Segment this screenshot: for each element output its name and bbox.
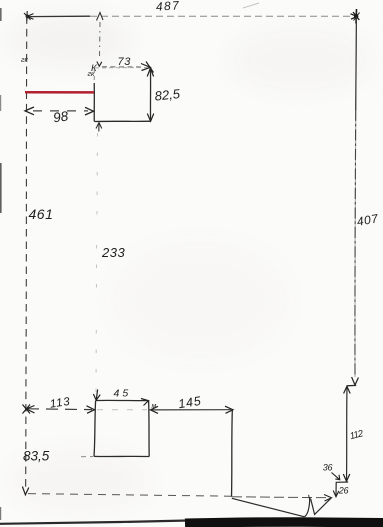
arrowhead up at x=100 on top line — [97, 13, 104, 21]
svg-text:36: 36 — [323, 463, 333, 473]
svg-text:82,5: 82,5 — [154, 86, 181, 104]
dimension line 112 (vertical) — [346, 387, 349, 481]
svg-text:98: 98 — [52, 108, 69, 125]
arrowhead left of 98 — [25, 107, 34, 115]
arrowhead right of 113 at square2 left edge — [87, 406, 95, 414]
arrowhead up-right into square2 top-right corner — [141, 399, 149, 406]
arrowhead up below square1 bottom-left — [96, 123, 102, 132]
red marker line — [25, 91, 94, 94]
bottom dashed line left section — [28, 494, 231, 497]
dimension line 487 (top, dashed) — [27, 15, 356, 17]
arrowhead down bottom of 26 segment — [333, 491, 339, 497]
dimension line 73 (dashed, square 1 top) — [102, 66, 143, 68]
square2 bottom edge dashes extending left — [81, 456, 93, 458]
square1 top edge (light dashed) — [95, 67, 150, 69]
arrowhead down at bottom of 407 line — [352, 377, 359, 385]
arrowhead down bottom of 112 — [343, 474, 350, 481]
dimension line 113 — [27, 408, 92, 411]
arrowhead bottom of left vertical line — [22, 487, 28, 495]
square1 right edge / dimension 82,5 — [149, 68, 151, 121]
scan artifact: thin bottom line left — [0, 521, 188, 524]
square2 right edge — [148, 401, 151, 457]
square 1 (top box) — [94, 68, 151, 122]
svg-text:487: 487 — [155, 0, 180, 14]
scan artifact: left edge mark top — [0, 8, 2, 21]
arrowhead down into square2 top-left corner — [93, 390, 100, 401]
arrowhead right of 98 — [85, 107, 94, 115]
scan artifact: thick black bottom strip — [185, 522, 383, 523]
square 2 (bottom box) — [94, 400, 149, 456]
tick at arc top — [309, 495, 310, 501]
wire: faint middle vertical dashed line (233 reference) — [96, 133, 98, 396]
arrowhead down (82,5 bottom) — [147, 114, 154, 122]
arrowhead right at square1 top-right corner — [141, 62, 154, 73]
wire: faint dim line through square2 — [97, 409, 147, 411]
square1 bottom edge — [94, 120, 151, 122]
scan artifact: left edge line middle — [0, 163, 2, 213]
arrowhead left of 145 — [150, 406, 158, 413]
svg-text:гк: гк — [21, 55, 29, 64]
arrowhead right end of bottom line — [324, 495, 332, 502]
svg-text:83,5: 83,5 — [23, 449, 50, 464]
dimension line 98 (dashed with arrows both ends) — [33, 110, 88, 112]
arrowhead up top of 112 — [344, 386, 351, 393]
svg-text:73: 73 — [118, 56, 132, 68]
square2 bottom edge — [94, 455, 149, 457]
square2 top edge — [96, 399, 149, 401]
wire: corner connector at (347..356, 385.6) — [347, 384, 356, 386]
square2 left edge — [94, 401, 96, 457]
right vertical line (407 side), solid fading into dash-dot — [355, 17, 356, 377]
left vertical dashed line (461 reference) — [26, 17, 27, 492]
svg-text:233: 233 — [101, 245, 125, 260]
svg-text:26: 26 — [338, 486, 349, 496]
step outline: horizontal at y=482 — [336, 481, 348, 483]
arrowhead right of 145 — [225, 406, 233, 413]
svg-text:45: 45 — [114, 388, 132, 400]
arrowhead left of 113 with cross — [23, 405, 35, 414]
square1 left edge — [93, 83, 95, 122]
square1 left edge upper dashes — [93, 69, 95, 83]
wire: vertical line from 145 end down to bottom — [231, 411, 234, 497]
diagonal line from x=232 bottom — [232, 498, 305, 517]
scan artifact: left edge mark near red line — [0, 95, 1, 111]
arrowhead up (82,5 top) — [147, 68, 153, 76]
V shape right of arc — [311, 498, 331, 514]
bottom dashed line right section — [232, 496, 329, 499]
wire: short dash-dot vertical from top line down to square 1 — [99, 22, 102, 57]
svg-text:461: 461 — [29, 206, 54, 222]
arc curving up from diagonal end — [305, 498, 310, 517]
scan artifact: left edge mark bottom — [0, 507, 1, 520]
arrow right end of 487 line (cross + right arrowhead) — [351, 9, 360, 24]
dimension line 145 — [151, 409, 231, 411]
arrow left end of 487 line (corner, cross + left arrowhead) — [24, 11, 34, 21]
faint stray pencil mark right of 487 — [243, 3, 259, 8]
step outline: vertical at x=336 — [335, 482, 337, 495]
